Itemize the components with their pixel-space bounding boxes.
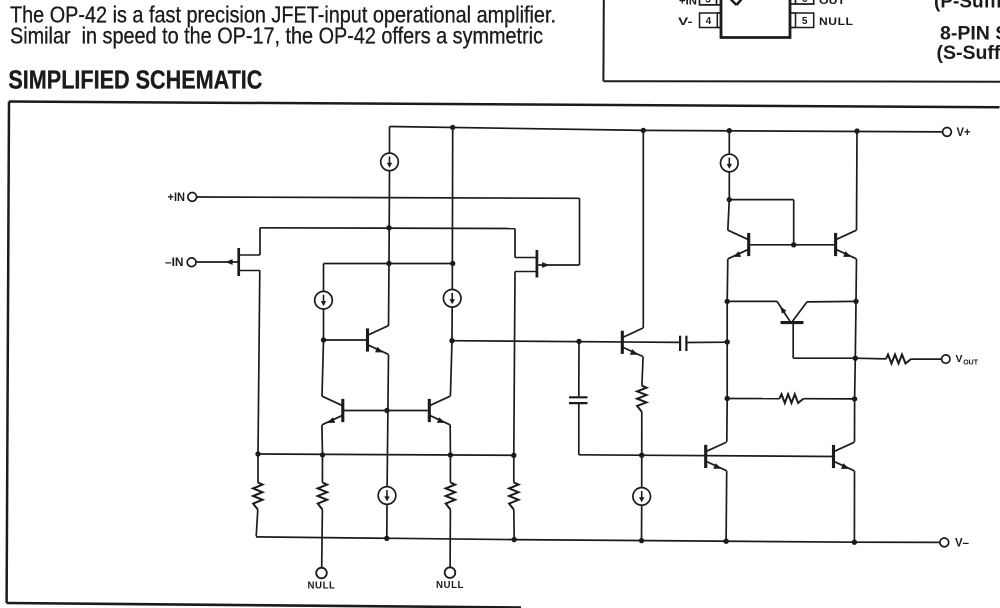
svg-text:NULL: NULL [819, 16, 854, 28]
svg-text:+IN: +IN [168, 192, 186, 204]
svg-text:5: 5 [802, 16, 808, 27]
svg-text:V+: V+ [957, 127, 971, 139]
svg-text:NULL: NULL [436, 579, 464, 591]
svg-text:V-: V- [678, 16, 693, 28]
svg-text:4: 4 [706, 16, 712, 27]
svg-text:(S-Suffix): (S-Suffix) [937, 42, 1000, 64]
svg-text:OUT: OUT [819, 0, 845, 7]
svg-text:V–: V– [955, 537, 970, 549]
svg-text:–IN: –IN [165, 257, 184, 269]
svg-text:6: 6 [802, 0, 808, 5]
svg-text:NULL: NULL [308, 580, 336, 592]
svg-text:8-PIN SO: 8-PIN SO [940, 22, 1000, 44]
svg-text:OUT: OUT [963, 360, 979, 367]
svg-text:V: V [956, 353, 963, 365]
svg-text:SIMPLIFIED SCHEMATIC: SIMPLIFIED SCHEMATIC [8, 67, 262, 95]
svg-text:Similar in speed to the OP-17: Similar in speed to the OP-17, the OP-42… [10, 23, 543, 49]
svg-text:3: 3 [705, 0, 711, 5]
svg-text:+IN: +IN [679, 0, 697, 7]
svg-text:(P-Suffix): (P-Suffix) [934, 0, 1000, 13]
